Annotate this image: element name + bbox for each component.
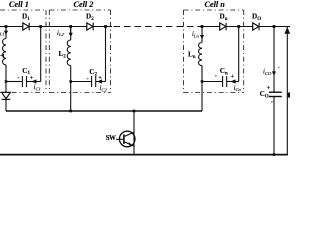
svg-text:+: + — [98, 74, 102, 81]
wire: cell1 inductor branch — [5, 27, 7, 39]
wire: cell2 cap-right vertical — [105, 27, 107, 82]
wire: bottom rail — [0, 154, 288, 156]
input diode (pointing down) — [2, 92, 11, 99]
wire: mid rail — [6, 110, 202, 112]
cell n box — [184, 10, 244, 93]
wire: cell2 inductor branch — [70, 27, 72, 41]
wire: load vertical (right edge) — [286, 27, 288, 156]
svg-text:+: + — [30, 74, 34, 81]
svg-text:Cell n: Cell n — [205, 0, 226, 9]
diode D2 — [87, 23, 93, 31]
svg-text:Cell 2: Cell 2 — [74, 0, 94, 9]
diode Dn — [220, 23, 226, 31]
diode D1 — [23, 23, 29, 31]
current arrow iCO (down) — [272, 71, 276, 75]
inductor Ln — [199, 43, 202, 66]
load label fragment — [288, 93, 290, 97]
junction: SW collector / mid rail — [133, 110, 136, 113]
capacitor CO — [269, 92, 282, 96]
junction: C1 right / top rail — [39, 25, 42, 28]
svg-text:-: - — [271, 98, 273, 105]
current arrow iC1 (left) — [31, 79, 36, 83]
wire: output cap branch — [273, 27, 275, 92]
current arrow iCn (left) — [230, 79, 235, 83]
junction: Ln bottom / Cn row — [201, 80, 204, 83]
current arrow iL2 — [70, 29, 72, 36]
junction: Ln branch / top rail — [201, 25, 204, 28]
current arrow iL1 — [5, 29, 7, 34]
svg-text:-: - — [215, 73, 217, 80]
svg-text:SW: SW — [106, 135, 116, 142]
svg-text:Cell 1: Cell 1 — [9, 0, 29, 9]
wire: dashed continuation rail — [114, 26, 200, 28]
wire: cell n cap row — [202, 81, 222, 83]
load arrow up — [285, 29, 289, 34]
wire: cell n cap-right vertical — [238, 27, 240, 82]
wire: cell n inductor branch — [201, 27, 203, 43]
transistor SW — [116, 131, 135, 147]
svg-text:+: + — [231, 73, 235, 80]
junction: Cn right / top rail — [237, 25, 240, 28]
wire: cell2 cap row — [71, 81, 92, 83]
junction: CO branch / top rail — [273, 25, 276, 28]
capacitor C2 — [92, 76, 96, 87]
current arrow iLn — [201, 29, 203, 39]
svg-text:-: - — [87, 76, 89, 83]
wire: cell1 cap row — [6, 81, 22, 83]
junction: L1 bottom / C1 row — [5, 80, 8, 83]
wire: top rail segments — [0, 26, 23, 28]
junction: CO bottom / bottom rail — [273, 153, 276, 156]
capacitor C1 — [22, 76, 26, 87]
cell 2 box — [49, 10, 110, 93]
stray mark near load — [278, 67, 280, 68]
junction: L1 branch / top rail — [5, 25, 8, 28]
wire: cell1 branch to input diode — [5, 82, 7, 93]
inductor L2 — [67, 40, 70, 66]
wire: cell1 cap-right vertical — [40, 27, 42, 82]
junction: L2 bottom / C2 row — [69, 80, 72, 83]
junction: C2 right / top rail — [104, 25, 107, 28]
diode DO — [253, 23, 259, 31]
svg-text:-: - — [18, 75, 20, 82]
wire: SW vertical — [133, 111, 135, 155]
capacitor Cn — [223, 76, 227, 87]
inductor L1 — [3, 39, 6, 65]
junction: L2 branch / top rail — [69, 25, 72, 28]
cell 1 box — [0, 10, 46, 93]
junction: cell2 branch / mid rail — [69, 110, 72, 113]
current arrow iC2 (left) — [97, 79, 102, 83]
svg-text:+: + — [267, 84, 271, 91]
